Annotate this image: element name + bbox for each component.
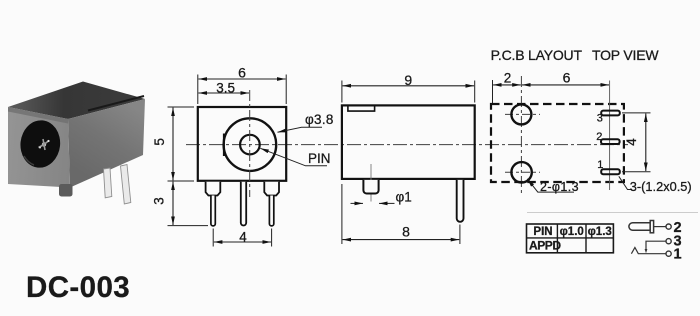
side view lid notch xyxy=(348,106,375,111)
photo: 3D jack body top face xyxy=(8,82,145,120)
front view center pin circle xyxy=(240,135,260,155)
side view body outline xyxy=(342,105,475,178)
front view right leg xyxy=(264,182,279,226)
dimension 8 (pin to front) xyxy=(342,184,460,244)
title TOP VIEW xyxy=(592,47,659,63)
svg-text:PIN: PIN xyxy=(533,226,552,238)
photo: mounting boss xyxy=(59,184,73,197)
svg-text:8: 8 xyxy=(402,224,410,240)
svg-text:3: 3 xyxy=(597,113,603,125)
title P.C.B LAYOUT xyxy=(491,47,583,63)
table cell APPD xyxy=(529,239,561,253)
table cell dia 1.0 xyxy=(560,226,584,238)
pcb pad 2 xyxy=(596,131,619,144)
photo: terminal pin B xyxy=(121,165,131,205)
table cell dia 1.3 xyxy=(588,226,612,238)
pcb pad 1 xyxy=(597,159,620,174)
pcb pad 3 xyxy=(597,111,620,125)
label 3-(1.2x0.5) with leader xyxy=(619,176,692,194)
pcb pad extension line xyxy=(609,81,611,191)
dimension 5 (body height) xyxy=(152,107,194,181)
svg-text:6: 6 xyxy=(563,70,571,86)
photo: center pin glint xyxy=(39,139,50,150)
svg-text:2-φ1.3: 2-φ1.3 xyxy=(540,180,579,194)
svg-text:P.C.B LAYOUT: P.C.B LAYOUT xyxy=(491,47,583,63)
svg-text:PIN: PIN xyxy=(308,151,331,166)
dimension 3 (leg length) xyxy=(152,182,209,226)
photo: 3D jack body right face xyxy=(68,99,145,188)
svg-text:2: 2 xyxy=(596,131,602,143)
photo: terminal pin A xyxy=(104,168,112,198)
dimension 3.5 (hole offset) xyxy=(198,80,249,95)
svg-text:3.5: 3.5 xyxy=(216,80,235,95)
svg-text:9: 9 xyxy=(404,72,412,88)
svg-text:3-(1.2x0.5): 3-(1.2x0.5) xyxy=(630,179,692,194)
side view front pin xyxy=(363,180,378,194)
svg-text:TOP VIEW: TOP VIEW xyxy=(592,47,659,63)
label dia 3.8 with leader xyxy=(278,112,334,133)
schematic pin 2 barrel symbol xyxy=(629,220,682,236)
svg-text:4: 4 xyxy=(239,229,247,244)
pcb hole centerline vertical xyxy=(520,76,522,193)
svg-text:5: 5 xyxy=(152,138,167,146)
svg-text:3: 3 xyxy=(152,197,167,205)
svg-text:1: 1 xyxy=(674,247,682,263)
svg-text:φ1.0: φ1.0 xyxy=(560,226,584,238)
dimension 4 (pad span) xyxy=(622,113,651,172)
schematic pin 3 switch contact xyxy=(645,234,682,254)
pcb mounting hole top xyxy=(511,104,531,124)
front view body outline xyxy=(198,107,286,181)
svg-text:φ1: φ1 xyxy=(396,189,412,204)
dimension 2 (hole to edge) xyxy=(493,71,521,104)
pcb mounting hole bottom xyxy=(511,162,531,182)
label 2-dia1.3 with leader xyxy=(527,179,579,194)
svg-text:φ3.8: φ3.8 xyxy=(305,112,334,127)
svg-text:APPD: APPD xyxy=(529,239,561,253)
dimension 9 (body length) xyxy=(342,72,475,102)
dimension 6 (front width) xyxy=(198,65,286,105)
side view front pin centerline xyxy=(370,164,372,202)
centerline horizontal main axis xyxy=(186,144,628,146)
svg-text:1: 1 xyxy=(597,159,603,171)
pcb hole top centerline horizontal xyxy=(505,113,540,115)
dimension dia 1 (front pin) xyxy=(351,189,412,204)
side view rear pin xyxy=(457,180,464,222)
spec table frame xyxy=(527,224,614,253)
part number DC-003 xyxy=(26,271,130,304)
front view barrel circle xyxy=(224,118,277,171)
dimension 4 (leg pitch) xyxy=(213,229,271,247)
front view center leg xyxy=(241,182,246,226)
front view left leg xyxy=(206,182,221,226)
photo: lid seam on top face xyxy=(8,96,144,124)
front view barrel flat chord xyxy=(223,134,225,157)
svg-text:DC-003: DC-003 xyxy=(26,271,130,304)
pcb hole bottom centerline horizontal xyxy=(505,171,540,173)
label PIN with leader xyxy=(260,148,330,166)
photo: 3D jack body front face xyxy=(8,107,70,188)
svg-text:φ1.3: φ1.3 xyxy=(588,226,612,238)
table cell PIN xyxy=(533,226,552,238)
svg-text:4: 4 xyxy=(624,138,639,146)
svg-text:6: 6 xyxy=(238,65,246,81)
svg-text:2: 2 xyxy=(504,71,512,86)
pcb outline dashed xyxy=(491,104,624,182)
faint separator line xyxy=(527,212,698,214)
photo: jack barrel hole xyxy=(18,118,62,169)
dimension 6 (hole to pad) xyxy=(522,70,609,86)
schematic pin 1 spring contact xyxy=(631,247,681,263)
front view vertical centerline xyxy=(249,90,251,197)
